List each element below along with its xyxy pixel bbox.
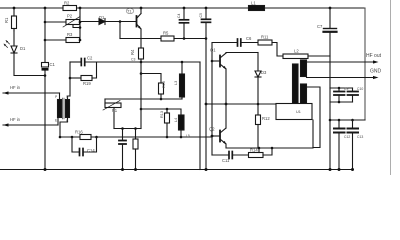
svg-text:P2: P2 [67,14,73,19]
svg-text:C5: C5 [199,13,203,17]
svg-text:C11: C11 [222,158,230,163]
wire Q2 emitter row y148 [226,120,313,148]
capacitor C8 [122,129,124,141]
resistor R15 [135,129,137,140]
svg-text:C10: C10 [357,87,363,91]
wire Q1 collector [226,52,258,55]
transformer TR2 [293,64,299,109]
svg-text:R1: R1 [4,17,9,23]
wire mid drop x200 [199,62,201,170]
svg-text:Q2: Q2 [209,127,215,132]
svg-text:R11: R11 [261,35,269,40]
resistor R13 [166,109,168,113]
svg-text:C7: C7 [317,24,323,29]
capacitor C6 [237,39,239,46]
svg-text:Q1: Q1 [210,48,216,53]
box core U1 [276,104,312,120]
wire collector drop x258 [257,53,259,71]
svg-text:R13: R13 [160,111,164,118]
resistor R3 [45,39,66,41]
capacitor C5 [205,8,207,19]
capacitor C9 [330,87,353,89]
svg-text:R2: R2 [64,1,70,6]
resistor R2 [63,6,77,11]
wire driver row y42.5 [212,43,237,62]
capacitor C1 [42,63,49,68]
wire Q1 emitter rail [225,69,227,128]
svg-text:C1: C1 [50,62,56,67]
svg-text:L3: L3 [174,81,178,85]
svg-text:P1: P1 [112,108,118,113]
svg-text:R3: R3 [67,32,73,37]
capacitor C13 [352,120,354,128]
resistor R4 [139,48,144,59]
svg-text:C14: C14 [87,148,95,153]
svg-text:C2: C2 [87,56,93,61]
capacitor C4 [183,8,185,19]
wire right edge drop [358,8,365,120]
transistor Q2 [219,131,221,142]
transistor T1 [136,16,138,27]
resistor R19 [69,62,71,96]
wire wiper jog [73,25,80,28]
svg-text:HF in: HF in [10,117,21,122]
svg-text:C9: C9 [344,87,348,91]
HF in upper [3,92,60,94]
wire TR1 secondary top [68,96,71,100]
wire cap row bottom [330,101,353,103]
LED D1 [13,29,15,47]
svg-text:C3: C3 [131,58,135,62]
svg-text:L4: L4 [174,118,178,122]
svg-text:C4: C4 [177,14,181,18]
inductor L3 [181,62,183,74]
wire TR1 secondary bottom [60,118,68,138]
inductor L4 [179,115,185,130]
wire TR2 tap y87 [307,87,321,148]
node Q1 base [211,60,214,63]
capacitor C10 [352,88,354,91]
svg-text:L2: L2 [294,49,299,54]
wire R5 row y38.5 [120,38,161,40]
svg-text:HF in: HF in [10,85,21,90]
wire left vertical rail x45 [44,8,46,63]
capacitor C7 [329,8,331,28]
wire choke row y109 [141,109,181,115]
wire center feed y104 [206,103,276,105]
capacitor C2 [80,59,82,66]
inductor L2 [283,54,308,59]
resistor R1 [12,16,17,29]
HF in lower [3,124,58,126]
svg-text:D3: D3 [261,70,267,75]
svg-text:T1: T1 [127,10,131,14]
node base junction [119,20,122,23]
trimmer P2 [104,99,106,105]
resistor R12 [256,115,261,125]
wire tap drop [258,148,260,153]
svg-text:C13: C13 [357,135,363,139]
svg-text:R19: R19 [83,81,91,86]
svg-text:C6: C6 [246,36,252,41]
svg-text:GND: GND [370,69,382,75]
wire base bus y137 [60,136,212,138]
wire base to T1 [120,21,137,23]
svg-text:R4: R4 [130,49,135,55]
inductor L1 [249,6,265,11]
transistor Q1 [212,60,220,62]
svg-text:D1: D1 [99,15,105,20]
resistor R5 [161,36,174,41]
wire vertical rail x80 [79,8,81,40]
node top bus junctions [13,7,332,10]
svg-text:D1: D1 [20,46,26,51]
wire emitter branch y73.5 [141,74,161,84]
svg-text:R14: R14 [250,148,258,153]
capacitor C11 [228,152,230,159]
wire feed rail x206 [205,39,207,170]
wire mid bus y62 [86,61,201,63]
wire x120 drop [119,22,121,39]
svg-text:L1: L1 [251,1,256,6]
svg-text:HF out: HF out [366,53,382,59]
frame right border [390,0,392,175]
diode D3 [255,71,261,77]
svg-text:R5: R5 [163,31,169,36]
resistor R16 [80,135,91,140]
wire y155 row [212,154,228,156]
wire TR2 out top [307,61,375,63]
svg-text:U1: U1 [296,110,301,114]
wire bottom ground bus [0,169,353,171]
transformer TR1 [58,100,62,118]
resistor R11 [258,40,272,45]
resistor R14 [249,153,264,158]
wire lc row y120 [330,119,365,121]
resistor R10 [159,83,164,94]
wire wiper row y128.5 [114,128,141,130]
wire top supply bus [0,7,365,9]
wire feedback rail x212 [211,61,213,155]
trimmer P1 [45,21,66,23]
svg-text:R12: R12 [262,116,270,121]
capacitor C12 [338,120,340,128]
svg-text:R10: R10 [162,81,166,88]
capacitor C14 [72,137,79,152]
wire bias row y99 [105,98,182,100]
wire LED to node [14,53,45,76]
svg-text:C12: C12 [344,135,350,139]
wire TR2 out gnd [307,77,375,79]
diode D2 [80,21,99,23]
svg-text:L5: L5 [186,134,190,138]
svg-text:R16: R16 [75,130,83,135]
